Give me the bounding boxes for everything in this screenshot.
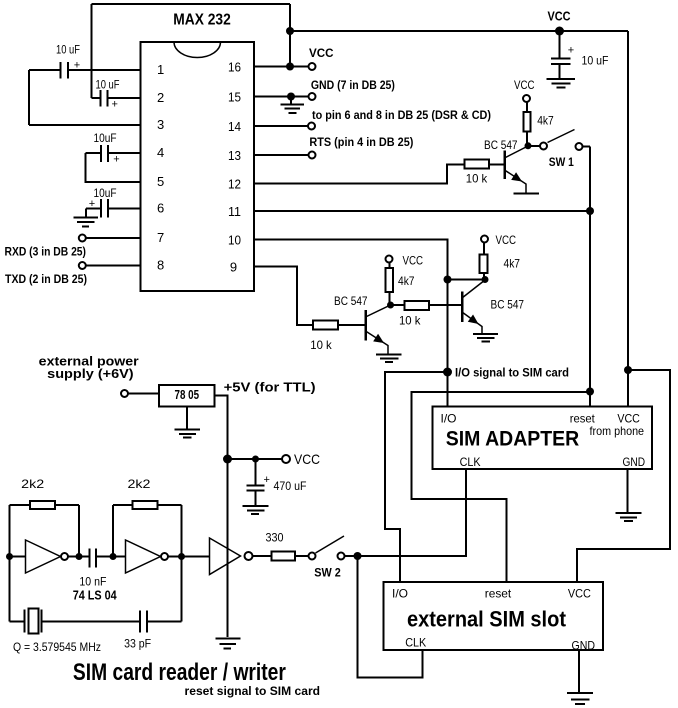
wire pin 9 to R3 (254, 267, 313, 326)
junction SW2 output node (354, 552, 362, 560)
svg-text:78 05: 78 05 (175, 388, 200, 402)
resistor R3 10 k (310, 321, 365, 353)
wire pin1-cap to pin3 left rail (28, 70, 30, 125)
resistor R5 10 k (399, 301, 462, 328)
svg-text:VCC: VCC (548, 9, 572, 24)
capacitor C5 10 uF (VCC) (551, 31, 609, 67)
svg-text:SIM ADAPTER: SIM ADAPTER (446, 427, 580, 450)
svg-text:2k2: 2k2 (128, 477, 151, 491)
svg-text:10 nF: 10 nF (79, 574, 106, 588)
resistor R2 4k7 (524, 102, 554, 146)
buffer U3 (210, 538, 272, 575)
svg-text:13: 13 (228, 148, 241, 163)
svg-text:14: 14 (228, 119, 241, 134)
svg-text:reset: reset (485, 587, 512, 601)
svg-text:TXD (2 in DB 25): TXD (2 in DB 25) (5, 272, 87, 286)
svg-text:4k7: 4k7 (537, 113, 554, 127)
junction Q3 collector (482, 276, 489, 283)
junction 470uF tap (252, 456, 259, 463)
node VCC terminal (bottom) (282, 451, 320, 467)
svg-text:10 uF: 10 uF (582, 55, 609, 67)
svg-text:SW 2: SW 2 (314, 565, 341, 579)
svg-text:4k7: 4k7 (504, 256, 521, 270)
svg-text:12: 12 (228, 177, 241, 192)
svg-text:GND (7 in DB 25): GND (7 in DB 25) (311, 78, 395, 92)
ground (pin 15) (281, 97, 305, 114)
wire pin 13 RTS terminal (254, 135, 413, 159)
resistor R9 2k2 (inverter B) (113, 477, 182, 557)
svg-text:I/O: I/O (392, 587, 408, 601)
svg-text:9: 9 (230, 260, 237, 275)
wire inverter B input (113, 556, 126, 558)
wire external slot GND (578, 650, 580, 693)
wire pin 10 down to SIM adapter I/O (254, 240, 448, 407)
svg-text:SIM card reader / writer: SIM card reader / writer (73, 659, 286, 686)
resistor R1 10 k (465, 160, 505, 186)
svg-text:5: 5 (157, 174, 164, 189)
svg-text:15: 15 (228, 90, 241, 105)
capacitor C4 10uF (pin 6) (86, 188, 141, 217)
svg-text:BC 547: BC 547 (484, 138, 518, 152)
svg-text:SW 1: SW 1 (549, 155, 574, 169)
svg-text:7: 7 (157, 230, 164, 245)
wire pin 12 to R1 (254, 164, 465, 183)
resistor R4 4k7 (386, 263, 415, 306)
svg-text:GND: GND (572, 638, 596, 652)
svg-text:from phone: from phone (590, 424, 645, 438)
wire pin 11 (254, 210, 590, 212)
junction pin10 net (444, 276, 452, 284)
inverter A 74LS04 (26, 540, 90, 573)
ground (Q2 emitter) (376, 355, 402, 363)
svg-text:10 uF: 10 uF (96, 80, 120, 92)
svg-text:GND: GND (623, 455, 646, 469)
ground (C5) (547, 64, 576, 88)
wire pin 16 to VCC terminal (254, 46, 334, 70)
svg-text:16: 16 (228, 60, 241, 75)
svg-text:RXD (3 in DB 25): RXD (3 in DB 25) (5, 245, 87, 259)
junction VCC net (624, 366, 632, 374)
ground (Q3 emitter) (473, 334, 498, 342)
junction +5V node (223, 455, 232, 464)
node VCC terminal (Q3) (481, 233, 516, 247)
svg-text:+5V (for TTL): +5V (for TTL) (224, 379, 316, 394)
svg-text:+: + (112, 99, 118, 111)
svg-text:+: + (74, 60, 80, 72)
svg-text:MAX 232: MAX 232 (173, 12, 231, 29)
junction top rail (286, 27, 294, 35)
node VCC terminal (Q2) (386, 254, 424, 268)
svg-text:10uF: 10uF (94, 133, 117, 145)
svg-text:4k7: 4k7 (398, 274, 415, 288)
svg-text:VCC: VCC (496, 233, 517, 247)
svg-text:10: 10 (228, 233, 241, 248)
wire VCC net to external SIM slot (577, 370, 670, 582)
capacitor C1 10 uF (pin 1) (29, 44, 141, 78)
svg-text:+: + (568, 45, 574, 57)
wire +5V to VCC terminal (228, 458, 283, 460)
svg-text:VCC: VCC (294, 451, 320, 467)
wire top rail corner down to pin16 (289, 4, 291, 67)
svg-text:3: 3 (157, 117, 164, 132)
regulator 78 05 (159, 385, 215, 407)
junction Q1 collector (525, 142, 532, 149)
svg-text:74 LS 04: 74 LS 04 (73, 589, 117, 603)
svg-text:1: 1 (157, 62, 164, 77)
svg-text:33 pF: 33 pF (124, 637, 151, 651)
wire pin 3 (29, 124, 141, 126)
svg-text:470 uF: 470 uF (274, 481, 307, 493)
svg-text:330: 330 (266, 531, 284, 545)
op-amp U4 external SIM slot box (384, 582, 604, 652)
capacitor C3 10uF (pin 4) (86, 133, 141, 166)
junction inverter A input (6, 553, 13, 560)
switch SW 2 (309, 536, 358, 579)
ground (470uF) (243, 491, 269, 515)
node VCC top (548, 9, 572, 36)
ground (external slot) (567, 693, 593, 704)
wire SIM adapter GND (627, 469, 629, 512)
wire VCC rail (290, 30, 628, 32)
wire Q2 collector to R5 (391, 304, 405, 306)
svg-text:2: 2 (157, 90, 164, 105)
svg-text:8: 8 (157, 258, 164, 273)
junction pin11/reset (586, 207, 594, 215)
svg-text:BC 547: BC 547 (491, 298, 525, 312)
transistor Q2 BC 547 (334, 294, 391, 354)
svg-text:VCC: VCC (568, 587, 591, 601)
wire osc right rail (181, 505, 183, 622)
crystal Q 3.579545 MHz (10, 609, 141, 655)
op-amp U1 MAX232 IC body (141, 12, 255, 292)
wire 78 05 output down (215, 396, 228, 638)
ground (Q1 emitter) (514, 193, 540, 195)
svg-text:4: 4 (157, 145, 164, 160)
svg-text:supply (+6V): supply (+6V) (47, 366, 134, 381)
wire pin 15 GND (254, 78, 395, 101)
svg-text:11: 11 (228, 204, 241, 219)
transistor Q3 BC 547 (462, 280, 524, 334)
svg-text:10 k: 10 k (310, 338, 332, 352)
resistor R8 2k2 (inverter A) (10, 477, 80, 557)
junction reset net (586, 388, 594, 396)
svg-text:Q = 3.579545 MHz: Q = 3.579545 MHz (13, 640, 101, 654)
resistor R6 4k7 (480, 243, 521, 280)
svg-text:2k2: 2k2 (21, 477, 44, 491)
capacitor C6 470 uF (247, 459, 307, 493)
junction Q2 collector (387, 302, 394, 309)
wire Q3 collector to pin10 net (448, 279, 486, 281)
terminal external power (39, 354, 159, 397)
junction inverter B input (110, 553, 117, 560)
capacitor C7 10 nF (79, 549, 113, 589)
svg-text:CLK: CLK (405, 636, 426, 650)
node VCC terminal (Q1) (514, 78, 535, 102)
svg-text:VCC: VCC (514, 78, 535, 92)
ground (buffer) (216, 639, 241, 649)
svg-text:10 uF: 10 uF (56, 44, 80, 56)
capacitor C2 10 uF (pin 2) (92, 80, 141, 111)
svg-text:10 k: 10 k (399, 314, 421, 328)
wire top rail (92, 3, 291, 5)
svg-text:reset signal to SIM card: reset signal to SIM card (185, 684, 321, 698)
wire to inverter A (10, 556, 26, 558)
resistor R7 330 (266, 531, 309, 561)
capacitor C8 33 pF (124, 611, 181, 651)
svg-text:+: + (113, 154, 119, 166)
ground (C4) (74, 209, 99, 227)
svg-text:VCC: VCC (309, 46, 334, 60)
node TXD terminal (5, 262, 141, 286)
svg-text:CLK: CLK (460, 455, 481, 469)
svg-text:10uF: 10uF (94, 188, 117, 200)
svg-text:+: + (264, 474, 270, 486)
wire pin4-cap loop to pin 5 (86, 153, 141, 182)
wire reset net (SW1 to slot reset) (412, 392, 591, 582)
inverter B 74LS04 (126, 540, 210, 573)
wire I/O to external SIM slot (385, 372, 448, 582)
junction inverter A output (76, 553, 83, 560)
node I/O signal junction (443, 367, 569, 379)
transistor Q1 BC 547 (484, 138, 528, 193)
svg-text:external SIM slot: external SIM slot (407, 606, 567, 631)
svg-text:10 k: 10 k (466, 171, 488, 185)
wire osc left rail (9, 505, 11, 622)
svg-text:BC 547: BC 547 (334, 294, 368, 308)
wire SW1 down to SIM adapter reset (589, 147, 591, 407)
ground (SIM adapter) (616, 513, 642, 521)
svg-text:I/O: I/O (441, 412, 457, 426)
svg-text:6: 6 (157, 201, 164, 216)
wire pin 14 terminal (254, 108, 491, 129)
ground (78 05) (175, 407, 201, 438)
op-amp U2 SIM ADAPTER box (433, 407, 653, 470)
svg-text:RTS (pin 4 in DB 25): RTS (pin 4 in DB 25) (309, 135, 413, 149)
switch SW 1 (528, 130, 590, 170)
junction inverter B output (178, 553, 185, 560)
wire SW2 node down to slot CLK loop (358, 556, 423, 678)
wire VCC net right vertical (627, 31, 629, 407)
svg-text:to pin 6 and 8 in DB 25 (DSR &: to pin 6 and 8 in DB 25 (DSR & CD) (312, 108, 491, 122)
wire top-left vertical (pin2 cap to top rail) (91, 4, 93, 98)
wire SIM adapter CLK down and left to SW2 node (358, 469, 467, 556)
node RXD terminal (5, 235, 141, 259)
svg-text:VCC: VCC (403, 254, 424, 268)
svg-text:I/O signal to SIM card: I/O signal to SIM card (455, 367, 569, 379)
